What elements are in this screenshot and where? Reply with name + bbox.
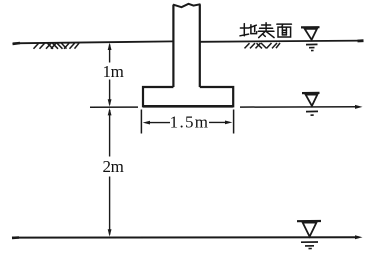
- svg-text:1.5m: 1.5m: [170, 113, 210, 132]
- svg-text:2m: 2m: [102, 157, 123, 176]
- svg-text:1m: 1m: [102, 62, 123, 81]
